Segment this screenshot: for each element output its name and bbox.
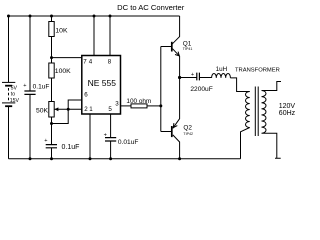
svg-text:1uH: 1uH <box>216 66 228 73</box>
wire output to C4 <box>180 77 197 79</box>
wire pin 4 <box>93 16 95 56</box>
battery V1 top lead <box>8 16 10 82</box>
wire R4 to base node <box>147 105 161 107</box>
svg-text:TIP41: TIP41 <box>183 47 193 51</box>
svg-text:TRANSFORMER: TRANSFORMER <box>235 67 280 73</box>
transistor Q1 collector <box>172 16 180 44</box>
svg-text:100K: 100K <box>55 68 71 75</box>
svg-text:to: to <box>11 92 15 98</box>
potentiometer R3 wiper arrow <box>54 107 58 111</box>
wire R2 to pot <box>51 78 53 102</box>
inductor L1 1uH <box>212 74 231 78</box>
transformer T1 core <box>255 87 258 137</box>
capacitor C1 0.1uF plates <box>24 91 35 94</box>
wire Q2 base <box>161 131 172 133</box>
IC U1 NE 555 box <box>82 56 121 115</box>
battery label 5V to 15V <box>10 86 20 104</box>
node dot pot bottom junction <box>50 122 53 125</box>
wire pin 5 <box>110 114 112 159</box>
svg-text:TIP42: TIP42 <box>183 132 193 136</box>
svg-text:+: + <box>191 72 194 78</box>
resistor R4 100 ohm <box>131 104 147 108</box>
svg-text:50K: 50K <box>36 108 49 115</box>
wire C1 branch <box>29 16 31 159</box>
svg-text:0.1uF: 0.1uF <box>33 84 50 91</box>
svg-text:NE 555: NE 555 <box>88 78 117 88</box>
node dot top rail x94 <box>93 15 96 18</box>
wire base bus vertical <box>160 47 162 132</box>
battery V1 bottom lead <box>8 106 10 159</box>
svg-text:10K: 10K <box>55 28 68 35</box>
svg-text:0.01uF: 0.01uF <box>118 139 139 146</box>
capacitor C4 2200uF plates <box>197 73 200 81</box>
node dot wiper junction <box>67 108 70 111</box>
transistor Q2 emitter arrow <box>173 123 177 128</box>
node dot R1-R2 junction <box>50 56 53 59</box>
wire pin 6 <box>52 100 82 124</box>
capacitor C3 0.01uF plates <box>105 138 116 141</box>
svg-text:3: 3 <box>115 100 119 107</box>
svg-text:+: + <box>23 83 26 89</box>
wire Q1 base <box>161 46 172 48</box>
wire 10K top lead <box>51 16 53 22</box>
node dot bottom rail x30 <box>29 157 32 160</box>
resistor R2 100K <box>49 63 54 78</box>
svg-text:15V: 15V <box>10 98 20 104</box>
wire bottom rail <box>9 158 241 160</box>
svg-text:2: 2 <box>84 106 88 113</box>
wire inductor to transformer <box>230 78 249 92</box>
svg-text:5: 5 <box>108 106 112 113</box>
node dot bottom rail x51 <box>50 157 53 160</box>
transistor Q1 base bar <box>171 42 173 52</box>
transistor Q2 collector <box>173 135 180 159</box>
node dot top rail x51 <box>50 15 53 18</box>
svg-text:7: 7 <box>83 58 87 65</box>
svg-text:100 ohm: 100 ohm <box>126 98 151 105</box>
transistor Q2 emitter <box>173 78 180 129</box>
svg-text:4: 4 <box>89 58 93 65</box>
transistor Q2 base bar <box>171 126 173 137</box>
node dot rail-battery <box>7 15 10 18</box>
node dot top rail x30 <box>29 15 32 18</box>
potentiometer R3 50K body <box>49 102 54 118</box>
wire pot bottom lead <box>51 117 53 159</box>
svg-text:Q2: Q2 <box>183 124 192 131</box>
wire pin 1 <box>89 114 91 159</box>
wire pin 3 <box>121 105 132 107</box>
svg-text:2200uF: 2200uF <box>190 86 212 93</box>
transformer T1 primary winding <box>241 92 250 159</box>
node dot output <box>178 76 181 79</box>
node dot bottom rail x110 <box>109 157 112 160</box>
wire C4 to inductor <box>199 77 211 79</box>
capacitor C2 0.1uF plates <box>46 145 57 148</box>
svg-text:6: 6 <box>84 91 88 98</box>
transistor Q1 emitter <box>173 49 180 78</box>
wire to pin 7 <box>52 57 82 59</box>
node dot bottom rail x179 <box>178 157 181 160</box>
svg-text:+: + <box>104 133 107 139</box>
svg-text:+: + <box>44 138 47 144</box>
wire wiper to pin 2 <box>54 108 81 110</box>
wire pin 8 <box>109 16 111 56</box>
transformer T1 secondary winding <box>262 82 282 159</box>
resistor R1 10K <box>49 22 54 37</box>
svg-text:1: 1 <box>89 106 93 113</box>
svg-text:60Hz: 60Hz <box>279 110 296 117</box>
node dot top rail x110 <box>109 15 112 18</box>
transistor Q1 emitter arrow <box>175 52 179 56</box>
svg-text:0.1uF: 0.1uF <box>62 144 80 151</box>
battery V1 <box>2 82 15 106</box>
node dot base bus <box>159 104 162 107</box>
svg-text:8: 8 <box>108 58 112 65</box>
svg-text:DC to AC Converter: DC to AC Converter <box>117 3 185 12</box>
wire R1 to node pin7 <box>51 37 53 64</box>
wire top rail <box>9 15 180 17</box>
node dot bottom rail x90 <box>89 157 92 160</box>
